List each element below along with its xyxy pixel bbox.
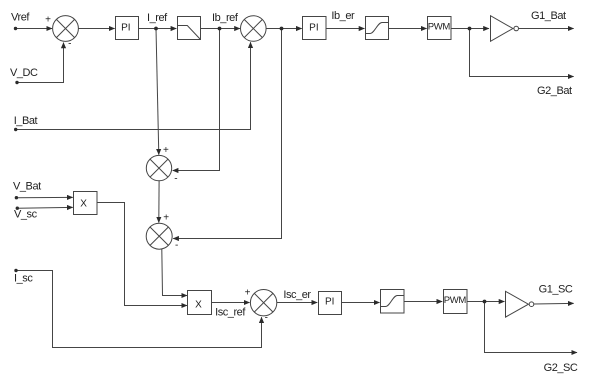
svg-text:G2_Bat: G2_Bat (537, 85, 572, 97)
svg-text:PI: PI (309, 23, 318, 34)
svg-text:G2_SC: G2_SC (544, 362, 578, 374)
svg-text:V_Bat: V_Bat (13, 181, 41, 193)
svg-text:PWM: PWM (428, 21, 451, 32)
svg-text:Isc_er: Isc_er (283, 289, 311, 301)
svg-text:-: - (265, 312, 268, 323)
svg-text:+: + (163, 212, 169, 223)
svg-text:-: - (175, 240, 178, 251)
svg-text:G1_Bat: G1_Bat (531, 10, 566, 22)
svg-text:+: + (45, 14, 51, 25)
svg-text:+: + (245, 287, 251, 298)
svg-text:I_ref: I_ref (147, 12, 168, 24)
svg-text:+: + (163, 145, 169, 156)
svg-text:Ib_ref: Ib_ref (212, 12, 239, 24)
svg-text:I_Bat: I_Bat (14, 115, 38, 127)
svg-text:PI: PI (121, 23, 130, 34)
svg-text:Vref: Vref (11, 12, 30, 24)
svg-text:-: - (174, 174, 177, 185)
svg-text:-: - (68, 38, 71, 49)
svg-text:V_DC: V_DC (10, 67, 38, 79)
svg-text:G1_SC: G1_SC (539, 284, 573, 296)
svg-text:PI: PI (325, 297, 334, 308)
svg-text:PWM: PWM (444, 295, 467, 306)
svg-text:Isc_ref: Isc_ref (215, 307, 246, 319)
svg-text:X: X (80, 199, 87, 210)
svg-text:Ib_er: Ib_er (331, 10, 355, 22)
svg-text:V_sc: V_sc (14, 209, 38, 221)
svg-text:X: X (195, 299, 202, 310)
svg-text:I_sc: I_sc (14, 272, 33, 284)
